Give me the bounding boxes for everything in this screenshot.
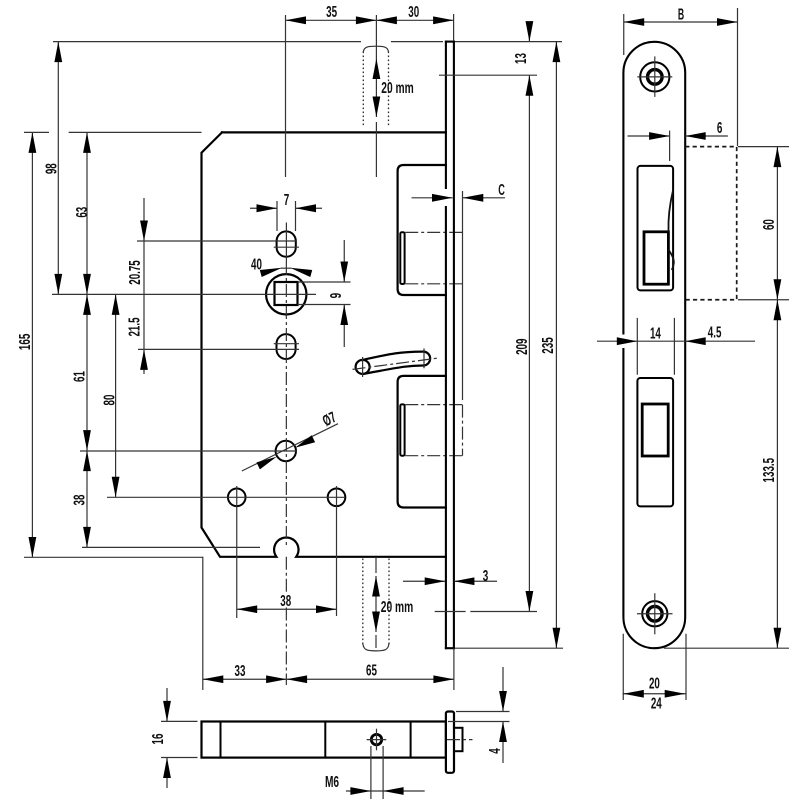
svg-text:235: 235 [540, 337, 557, 354]
svg-text:B: B [678, 7, 684, 24]
svg-text:38: 38 [72, 494, 89, 505]
svg-text:40: 40 [251, 257, 262, 274]
svg-text:60: 60 [761, 219, 778, 230]
svg-text:16: 16 [150, 734, 167, 745]
svg-text:13: 13 [513, 53, 530, 64]
svg-text:21.5: 21.5 [127, 317, 144, 336]
svg-text:98: 98 [43, 163, 60, 174]
svg-text:61: 61 [72, 371, 89, 382]
svg-text:C: C [498, 182, 505, 199]
svg-text:80: 80 [102, 395, 119, 406]
svg-text:65: 65 [366, 662, 377, 679]
svg-text:20.75: 20.75 [127, 260, 144, 285]
svg-text:M6: M6 [325, 774, 339, 791]
svg-text:20: 20 [649, 676, 660, 693]
svg-text:30: 30 [408, 4, 419, 21]
svg-text:24: 24 [651, 696, 662, 713]
svg-text:14: 14 [650, 325, 661, 342]
svg-text:209: 209 [514, 339, 531, 355]
svg-text:4: 4 [487, 748, 504, 754]
svg-text:63: 63 [74, 207, 91, 218]
svg-text:9: 9 [328, 293, 345, 299]
svg-text:133.5: 133.5 [761, 458, 778, 483]
svg-text:33: 33 [235, 663, 246, 680]
svg-text:165: 165 [17, 333, 34, 350]
svg-text:20 mm: 20 mm [381, 599, 413, 616]
svg-text:20 mm: 20 mm [381, 80, 413, 97]
svg-text:6: 6 [717, 120, 723, 137]
svg-text:7: 7 [284, 192, 290, 209]
svg-text:4.5: 4.5 [708, 324, 722, 341]
svg-text:35: 35 [326, 4, 337, 21]
svg-text:3: 3 [483, 568, 489, 585]
